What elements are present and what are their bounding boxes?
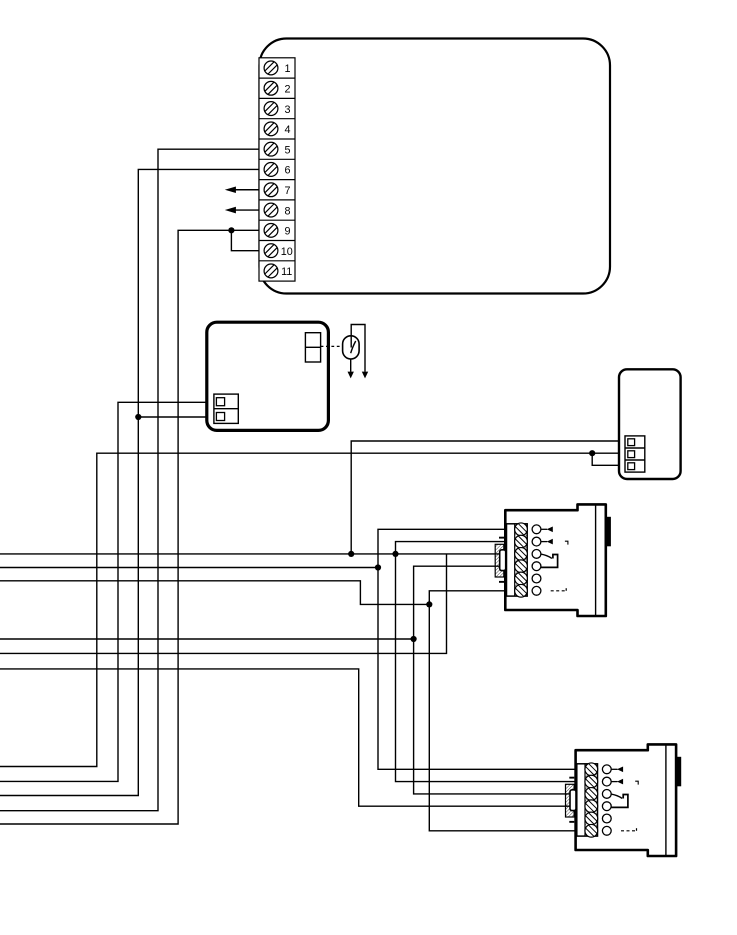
svg-text:1: 1 bbox=[284, 63, 290, 75]
wire jumper top loop bbox=[351, 325, 365, 372]
relay K2 pin 4 bbox=[602, 802, 611, 811]
relay K1 bent contact pin4 bbox=[541, 555, 558, 568]
wire net L9: left feed to node on L3 bbox=[0, 554, 447, 654]
junction node D1 bbox=[348, 551, 354, 557]
relay K2 screw 6 bbox=[585, 824, 598, 837]
terminal 6 bbox=[259, 159, 295, 176]
svg-text:5: 5 bbox=[284, 144, 290, 156]
wire A2 pin1 down to node D1 bbox=[351, 441, 619, 554]
wire net L2: relay K1 pin2 / relay K2 pin2 bbox=[396, 542, 576, 782]
junction A2 pin2/pin3 bbox=[589, 450, 595, 456]
wire A2 pin2 to left bundle exit bbox=[0, 453, 619, 766]
relay K2 screw 3 bbox=[585, 788, 598, 801]
plug connector PK2 bbox=[566, 777, 577, 823]
wire net L7: left feed to node on L6 bbox=[0, 581, 429, 605]
relay K1 pin 1 bbox=[532, 525, 541, 534]
arrow down right of jumper bbox=[362, 372, 368, 379]
wire net L6: relay K1 pin6 / relay K2 pin6 bbox=[429, 591, 575, 831]
junction on terminal-6 net bbox=[135, 414, 141, 420]
relay K1 screw 5 bbox=[515, 572, 528, 585]
relay K2 pin 3 bbox=[602, 790, 611, 799]
wire net L10: left feed to relay K2 pin4 bbox=[0, 669, 571, 806]
relay K2 mechanical link pin6 bbox=[621, 828, 637, 831]
svg-text:7: 7 bbox=[284, 185, 290, 197]
relay K2 pin 2 bbox=[602, 777, 611, 786]
relay K1 contact hook mark bbox=[565, 541, 568, 544]
svg-text:10: 10 bbox=[281, 246, 293, 258]
relay K2 screw 5 bbox=[585, 812, 598, 825]
relay K2 pin 6 bbox=[602, 826, 611, 835]
wire terminal 5 to left bundle exit bbox=[0, 149, 259, 811]
arrow at terminal 8 bbox=[225, 207, 259, 214]
wire terminal 9 to left bundle exit bbox=[0, 230, 259, 824]
relay K2 screw 2 bbox=[585, 775, 598, 788]
wire jumper bottom bbox=[350, 359, 352, 372]
wire net L8: left feed to node on L4 bbox=[0, 638, 414, 640]
connector X2 (2-pole) on A1 bbox=[214, 394, 238, 423]
terminal 3 bbox=[259, 98, 295, 115]
connector X1 (2-pole) on A1 bbox=[305, 333, 320, 362]
relay K2 bent contact pin4 bbox=[611, 795, 628, 808]
wire net L5: left feed to node on L1 bbox=[0, 567, 378, 569]
relay K2 NO contact pin2 bbox=[611, 779, 623, 785]
relay K1 common lever pin3 bbox=[541, 554, 552, 558]
junction node D4 bbox=[426, 601, 432, 607]
dashed link X1 to jumper bbox=[321, 345, 343, 347]
svg-text:3: 3 bbox=[284, 104, 290, 116]
svg-text:2: 2 bbox=[284, 83, 290, 95]
svg-text:8: 8 bbox=[284, 205, 290, 217]
relay K2 screw 4 bbox=[585, 800, 598, 813]
terminal 4 bbox=[259, 119, 295, 136]
relay K1 mechanical link pin6 bbox=[551, 588, 567, 591]
relay K1 screw 6 bbox=[515, 584, 528, 597]
relay K1 screw 4 bbox=[515, 560, 528, 573]
relay K2 NC contact pin1 bbox=[611, 767, 623, 773]
terminal 9 bbox=[259, 220, 295, 237]
jumper S1 (oval) bbox=[343, 336, 360, 359]
relay K1 pin 6 bbox=[532, 586, 541, 595]
relay K2 flange line bbox=[665, 744, 667, 856]
control unit U1 bbox=[260, 39, 611, 294]
wire net L4: relay K1 pin4 / relay K2 pin3 bbox=[414, 566, 571, 794]
relay K2 latch tab bbox=[676, 757, 681, 787]
arrow down below jumper bbox=[348, 372, 354, 379]
relay K2 pin 1 bbox=[602, 765, 611, 774]
jumper lever bbox=[351, 341, 356, 353]
arrow at terminal 7 bbox=[225, 186, 259, 193]
relay K1 screw 1 bbox=[515, 523, 528, 536]
relay K2 common lever pin3 bbox=[611, 794, 622, 798]
junction node D3 bbox=[375, 564, 381, 570]
relay K2 pin 5 bbox=[602, 814, 611, 823]
wire A1 pin1 to left bundle exit bbox=[0, 402, 207, 781]
wire net L3: left feed to relay K1 pin3 bbox=[0, 553, 501, 555]
terminal 8 bbox=[259, 200, 295, 217]
relay K2 body bbox=[576, 744, 677, 856]
relay K1 pin 3 bbox=[532, 550, 541, 559]
junction node D2 bbox=[392, 551, 398, 557]
junction terminals 9/10 bbox=[228, 227, 234, 233]
relay K1 NC contact pin1 bbox=[541, 527, 553, 533]
terminal 5 bbox=[259, 139, 295, 156]
terminal 7 bbox=[259, 180, 295, 197]
relay K1 pin 4 bbox=[532, 562, 541, 571]
plug connector PK1 bbox=[495, 537, 506, 583]
relay K2 screw 1 bbox=[585, 763, 598, 776]
junction node D5 bbox=[411, 636, 417, 642]
terminal strip TB1 bbox=[259, 58, 295, 281]
relay K2 contact hook mark bbox=[635, 781, 638, 784]
wire A2 pin3 branch bbox=[592, 453, 619, 465]
terminal 11 bbox=[259, 261, 295, 278]
relay K2 terminal block bbox=[577, 764, 598, 836]
wire terminal 6 to left bundle exit bbox=[0, 169, 259, 795]
relay K1 terminal block bbox=[507, 524, 528, 596]
svg-text:6: 6 bbox=[284, 165, 290, 177]
terminal 2 bbox=[259, 78, 295, 95]
module A1 bbox=[207, 322, 329, 430]
relay K1 screw 2 bbox=[515, 535, 528, 548]
wire terminal 9 to terminal 10 bbox=[231, 230, 259, 250]
relay K1 flange line bbox=[595, 504, 597, 616]
connector X3 (3-pole) on A2 bbox=[625, 436, 645, 472]
relay K1 pin 2 bbox=[532, 537, 541, 546]
relay K1 NO contact pin2 bbox=[541, 539, 553, 545]
terminal 10 bbox=[259, 241, 295, 258]
relay K1 body bbox=[505, 504, 606, 616]
relay K1 latch tab bbox=[606, 517, 611, 547]
terminal 1 bbox=[264, 61, 290, 75]
wire A1 pin2 to terminal-6 net bbox=[138, 416, 207, 418]
wire net L1: relay K1 pin1 / relay K2 pin1 bbox=[378, 529, 576, 769]
svg-text:11: 11 bbox=[281, 266, 292, 278]
relay K1 pin 5 bbox=[532, 574, 541, 583]
svg-text:9: 9 bbox=[284, 226, 290, 238]
svg-text:4: 4 bbox=[284, 124, 290, 136]
module A2 bbox=[619, 369, 681, 479]
relay K1 screw 3 bbox=[515, 548, 528, 561]
